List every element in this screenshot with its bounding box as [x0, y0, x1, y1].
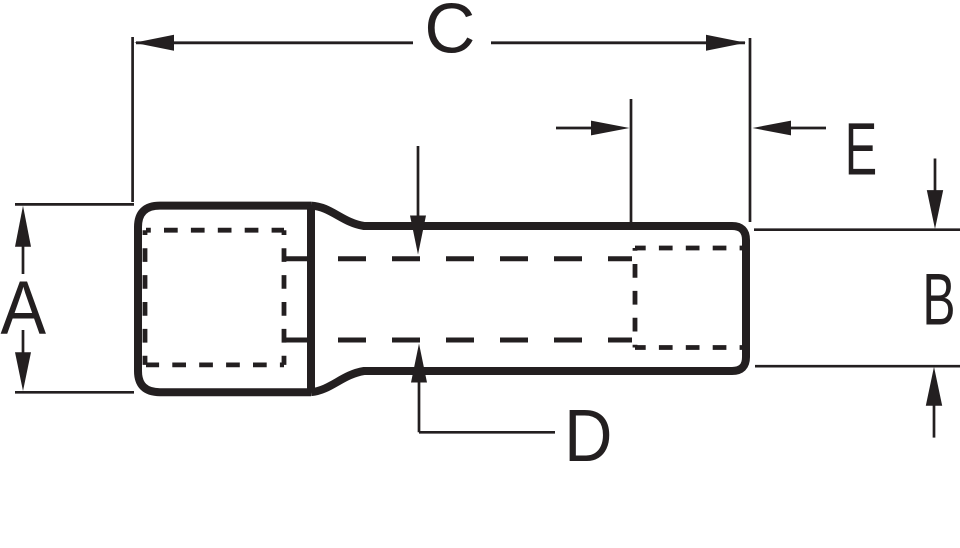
label D [564, 395, 612, 478]
hidden detail: socket recess at right end (dashed) [635, 246, 744, 251]
dimension E: right arrowhead [753, 121, 792, 136]
dimension B: top arrow tail [934, 159, 937, 192]
dimension C: right arrowhead [706, 35, 746, 51]
dimension D: bottom leader line and horizontal to label [419, 382, 555, 432]
part body: square drive head (left block) outline [138, 206, 311, 393]
dimension C: left arrowhead [134, 35, 174, 51]
dimension A: top extension line [15, 203, 134, 206]
dimension C: dimension line (gap for label) [136, 41, 745, 44]
dimension E: left arrowhead [591, 121, 630, 136]
dimension B: bottom extension line [755, 365, 960, 368]
label B [922, 259, 955, 341]
svg-text:C: C [424, 0, 475, 67]
dimension E: vertical line at groove [630, 99, 633, 222]
hidden detail: through-bore lines (long dashes) [284, 256, 632, 261]
dimension B: top extension line [754, 228, 960, 231]
part body: head/shank shoulder line [307, 206, 315, 393]
dimension B: top arrowhead [927, 190, 943, 229]
label A [1, 267, 47, 351]
dimension A: bottom extension line [15, 391, 134, 394]
dimension B: bottom arrowhead [926, 367, 942, 406]
dimension D: top arrowhead [410, 216, 426, 255]
part body: shank outline with taper and rounded right end [311, 206, 746, 393]
dimension A: top arrowhead [15, 206, 31, 247]
dimension D: top leader line [417, 146, 420, 216]
hidden detail: square drive recess (dashed rect in head) [146, 228, 284, 233]
dimension E: right arrow tail [791, 127, 826, 130]
dimension A: bottom arrowhead [15, 352, 31, 391]
dimension C: left extension line [131, 37, 134, 202]
dimension B: bottom arrow tail [933, 405, 936, 438]
svg-text:D: D [564, 395, 612, 478]
svg-text:E: E [845, 108, 877, 191]
dimension A: dimension line segments [22, 246, 25, 353]
svg-text:A: A [1, 267, 47, 351]
dimension E: left arrow tail [556, 127, 593, 130]
label E [845, 108, 877, 191]
svg-text:B: B [922, 259, 955, 341]
label C [424, 0, 475, 67]
dimension C: right extension line [749, 38, 752, 222]
dimension D: bottom arrowhead [411, 344, 427, 383]
